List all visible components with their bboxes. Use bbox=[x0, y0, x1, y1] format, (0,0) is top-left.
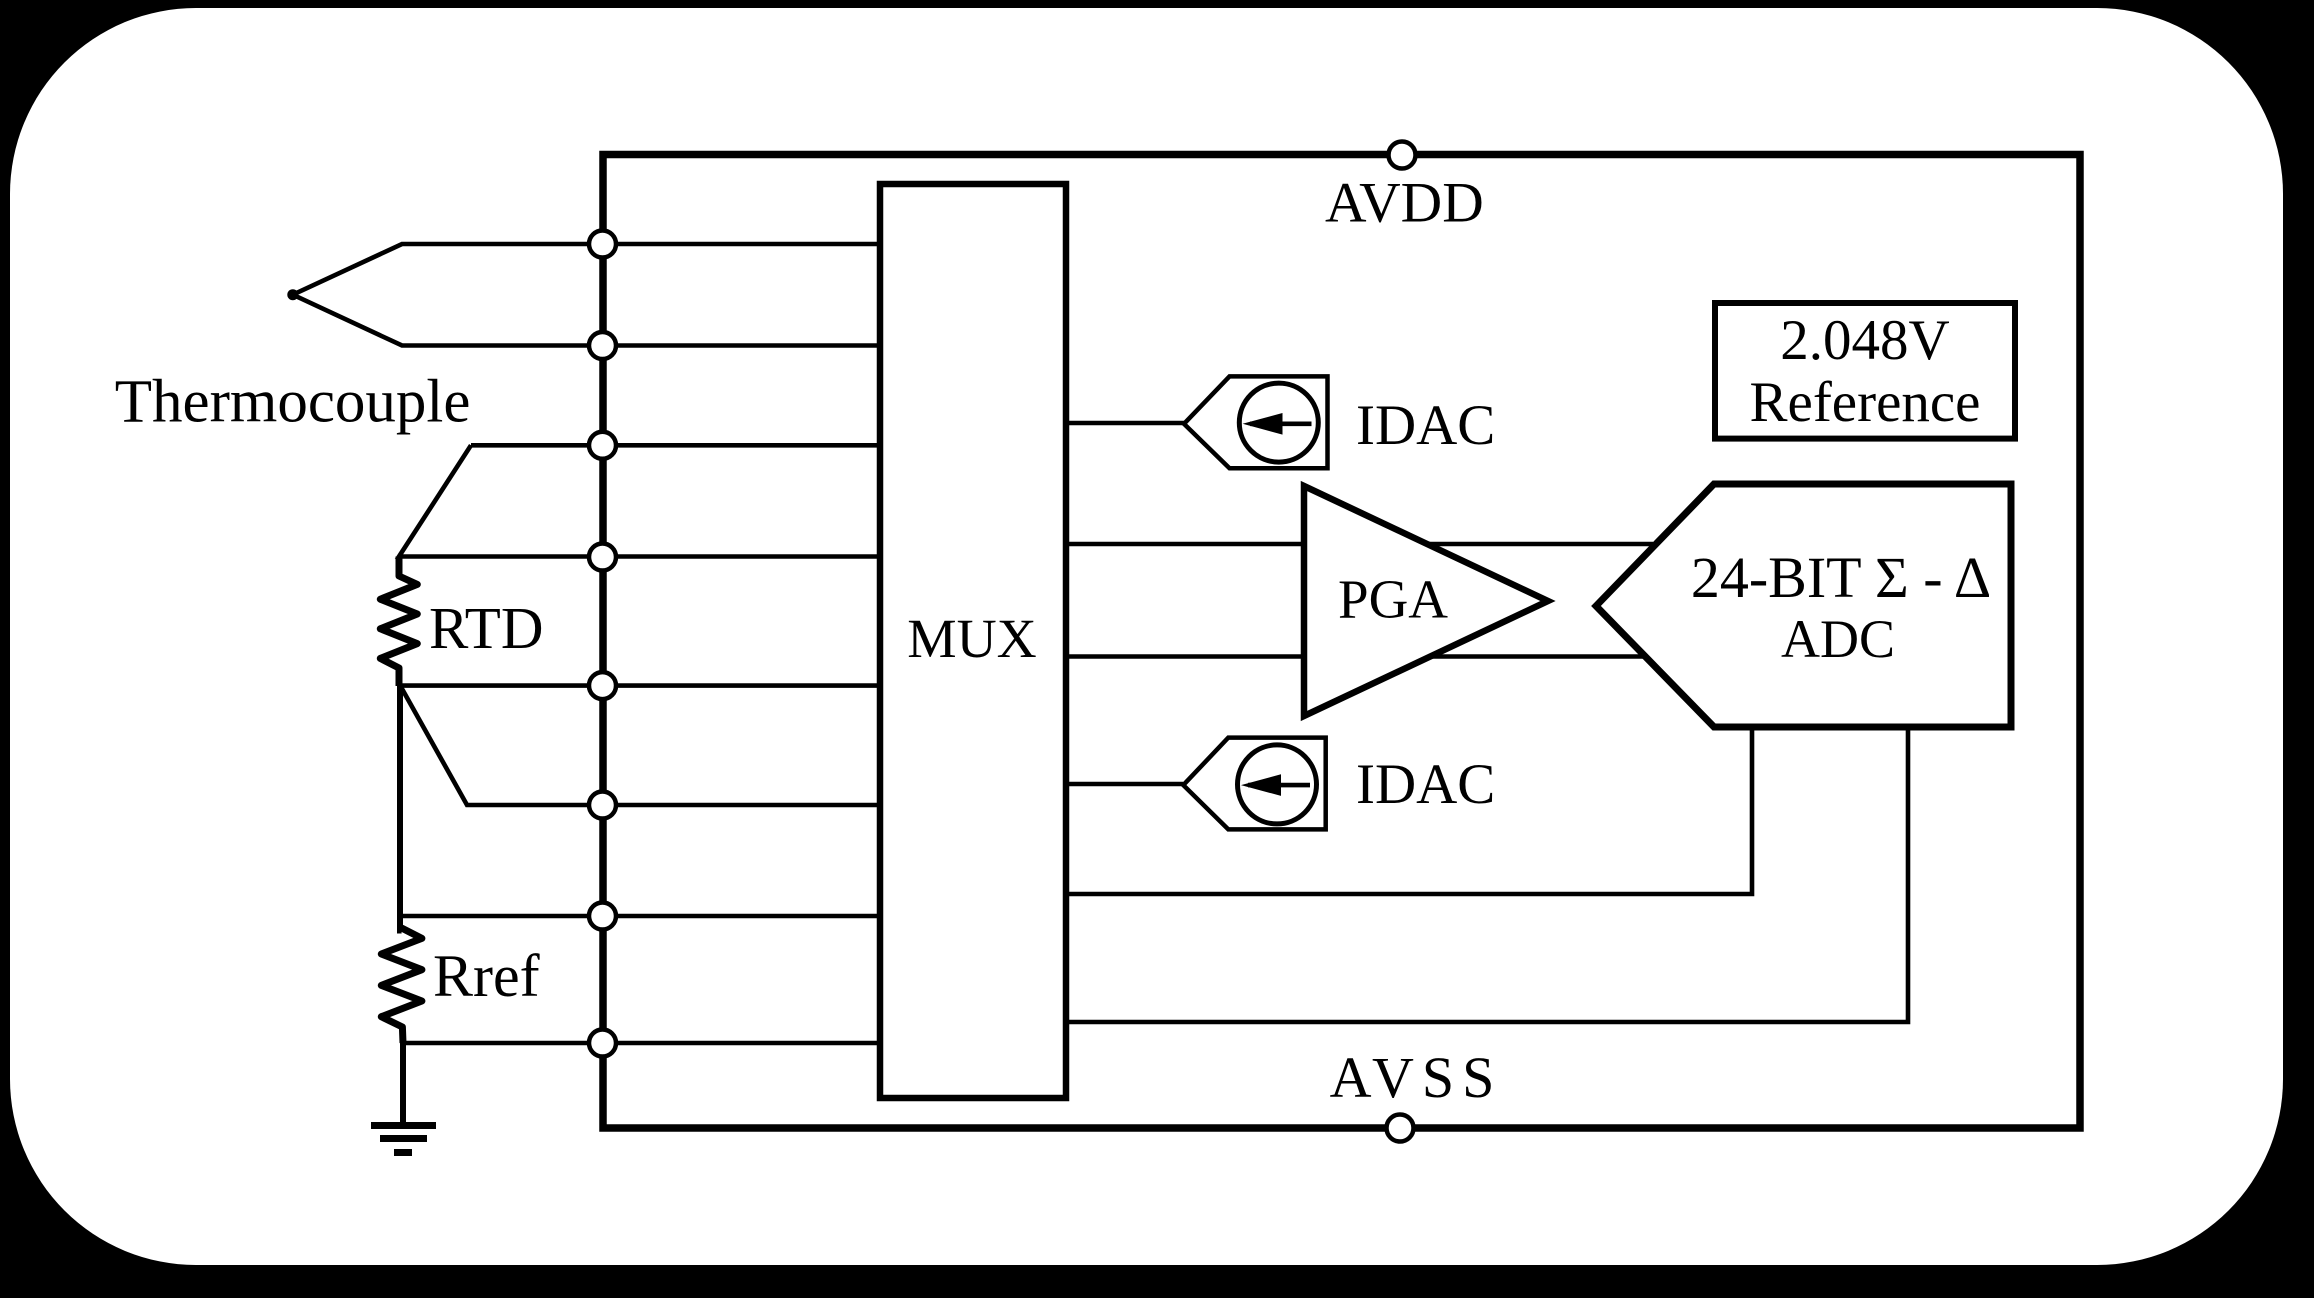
current source IDAC2 bbox=[1183, 738, 1325, 830]
wire REFP0 (Rref top to MUX) bbox=[400, 914, 880, 919]
thermocouple junction dot bbox=[287, 289, 298, 300]
pin REFP0 bbox=[589, 903, 616, 930]
svg-text:Reference: Reference bbox=[1750, 371, 1981, 434]
chip boundary (AVDD/AVSS rails rectangle) bbox=[603, 155, 2080, 1129]
svg-text:AVDD: AVDD bbox=[1325, 172, 1484, 235]
pin AIN5 bbox=[589, 792, 616, 819]
wire Rref bottom to ground bbox=[400, 1043, 406, 1123]
pin REFN0 bbox=[589, 1030, 616, 1057]
voltage reference U2 (2.048V) bbox=[1715, 303, 2015, 439]
svg-text:Rref: Rref bbox=[433, 943, 540, 1009]
pin AIN0 bbox=[589, 231, 616, 258]
svg-text:2.048V: 2.048V bbox=[1780, 309, 1949, 372]
svg-text:AVSS: AVSS bbox=[1330, 1045, 1503, 1110]
svg-text:IDAC: IDAC bbox=[1356, 753, 1495, 816]
svg-text:RTD: RTD bbox=[429, 595, 543, 661]
wire MUX to IDAC2 bbox=[1066, 782, 1183, 787]
wire AIN5 (RTD bottom diagonal sense) bbox=[401, 687, 880, 805]
pin AIN2 bbox=[589, 432, 616, 459]
resistor RTD bbox=[380, 557, 417, 687]
pin AIN4 bbox=[589, 672, 616, 699]
ground bbox=[371, 1126, 436, 1153]
wire AIN0 (thermocouple + to MUX) bbox=[293, 244, 880, 295]
ADC block (24-bit sigma-delta) bbox=[1596, 484, 2011, 727]
pin AIN1 bbox=[589, 332, 616, 359]
wire AIN2 horizontal from circle 3 bbox=[471, 443, 880, 448]
wire MUX to PGA input bottom bbox=[1066, 654, 1646, 659]
op-amp PGA bbox=[1304, 486, 1548, 716]
resistor Rref bbox=[381, 928, 422, 1043]
wire ADC feedback 1 (to MUX) bbox=[1066, 727, 1752, 894]
wire AIN4 (RTD bottom to MUX) bbox=[400, 683, 880, 688]
wire MUX to PGA input top bbox=[1066, 542, 1653, 547]
node AVDD terminal bbox=[1389, 142, 1416, 169]
svg-text:PGA: PGA bbox=[1338, 569, 1448, 630]
svg-text:ADC: ADC bbox=[1781, 609, 1895, 669]
wire AIN2 (RTD force lead, diagonal) bbox=[399, 445, 880, 556]
svg-text:IDAC: IDAC bbox=[1356, 394, 1495, 457]
svg-text:24-BIT Σ - Δ: 24-BIT Σ - Δ bbox=[1691, 545, 1991, 610]
current source IDAC1 bbox=[1184, 376, 1328, 468]
pin AIN3 bbox=[589, 544, 616, 571]
svg-text:MUX: MUX bbox=[907, 609, 1037, 670]
wire AIN1 (thermocouple - to MUX) bbox=[293, 295, 880, 346]
node AVSS terminal bbox=[1387, 1115, 1414, 1142]
wire MUX to IDAC1 bbox=[1066, 421, 1184, 426]
svg-text:Thermocouple: Thermocouple bbox=[115, 369, 471, 436]
multiplexer MUX bbox=[880, 184, 1066, 1098]
wire RTD bottom to Rref bbox=[400, 686, 402, 931]
wire ADC feedback 2 (to MUX) bbox=[1066, 727, 1908, 1022]
node terminal circles on left pin bus bbox=[589, 231, 616, 1057]
wire REFN0 (Rref bottom to MUX) bbox=[403, 1041, 880, 1046]
